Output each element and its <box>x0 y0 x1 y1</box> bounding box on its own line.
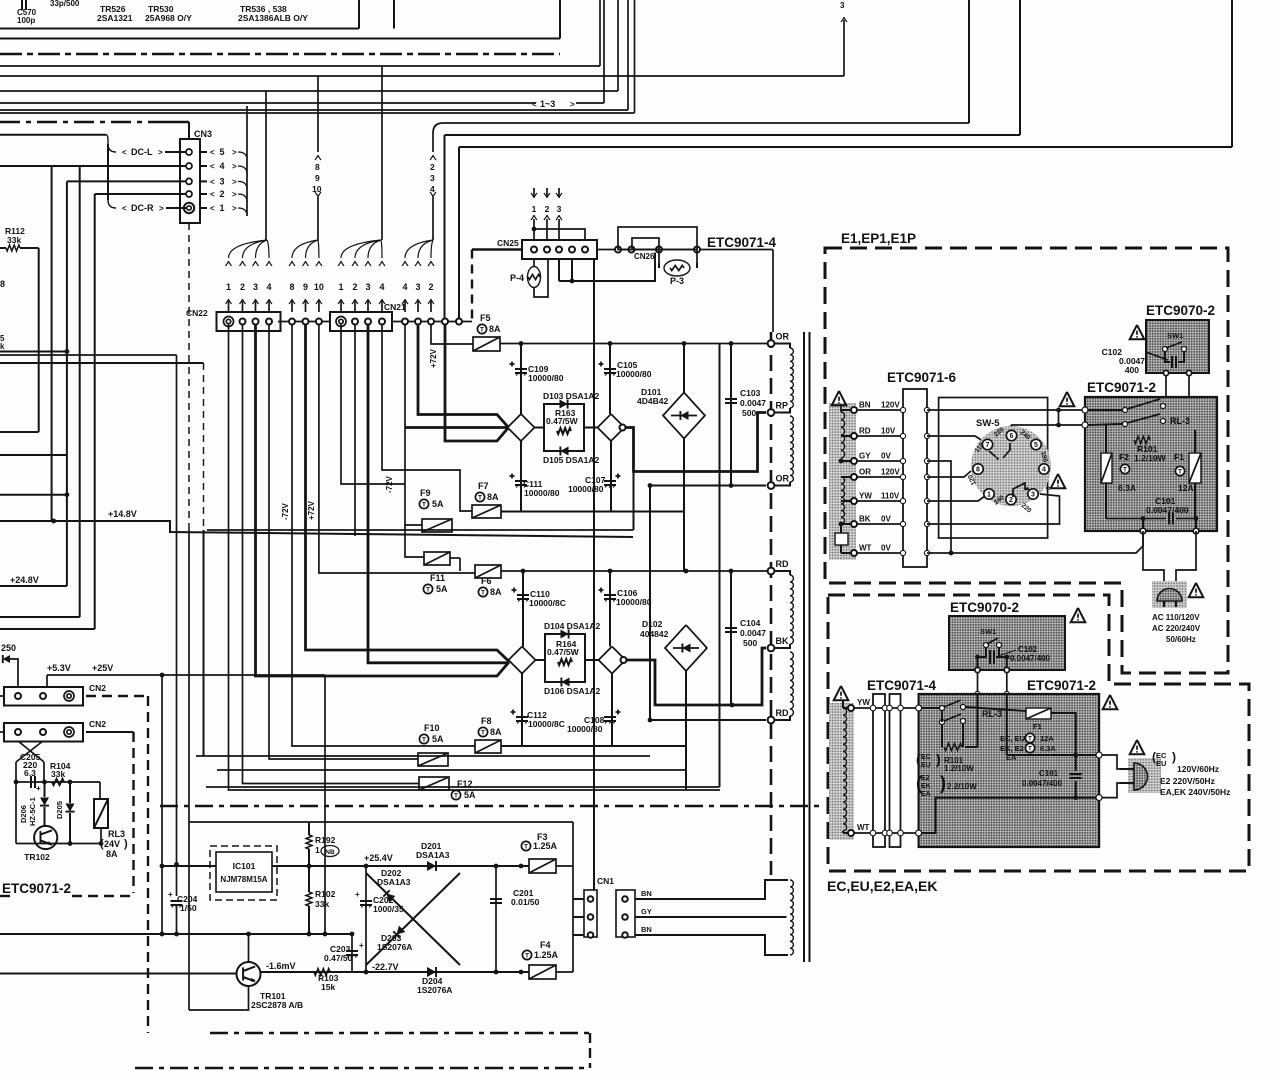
svg-text:1.25A: 1.25A <box>533 841 558 851</box>
svg-text:10000/80: 10000/80 <box>528 373 564 383</box>
svg-text:8: 8 <box>289 282 294 292</box>
svg-text:120V/60Hz: 120V/60Hz <box>1177 764 1219 774</box>
svg-text:1S2076A: 1S2076A <box>417 985 452 995</box>
svg-text:CN21: CN21 <box>384 302 406 312</box>
svg-text:>: > <box>232 177 237 186</box>
svg-text:5A: 5A <box>432 499 444 509</box>
svg-text:ETC9070-2: ETC9070-2 <box>950 600 1019 615</box>
svg-text:F7: F7 <box>478 481 489 491</box>
svg-text:4D4B42: 4D4B42 <box>637 396 668 406</box>
svg-text:): ) <box>1172 750 1176 764</box>
svg-text:24V: 24V <box>104 839 120 849</box>
svg-text:12A: 12A <box>1040 734 1054 743</box>
svg-text:6.3A: 6.3A <box>1040 744 1056 753</box>
svg-text:2: 2 <box>428 282 433 292</box>
svg-text:>: > <box>232 190 237 199</box>
svg-text:WT: WT <box>859 544 872 553</box>
svg-text:9: 9 <box>315 173 320 183</box>
svg-text:2SA1386ALB O/Y: 2SA1386ALB O/Y <box>238 13 308 23</box>
svg-text:33k: 33k <box>315 899 329 909</box>
svg-text:EC,EU,E2,EA,EK: EC,EU,E2,EA,EK <box>827 878 937 894</box>
svg-text:YW: YW <box>857 698 870 707</box>
svg-text:4: 4 <box>402 282 407 292</box>
svg-text:E2 220V/50Hz: E2 220V/50Hz <box>1160 776 1215 786</box>
svg-text:<: < <box>122 148 127 157</box>
svg-text:T: T <box>1028 746 1032 753</box>
svg-text:4: 4 <box>219 161 224 171</box>
svg-text:NB: NB <box>325 849 335 856</box>
svg-text:T: T <box>1123 467 1127 474</box>
svg-text:15k: 15k <box>321 982 335 992</box>
svg-text:F1: F1 <box>1174 452 1184 462</box>
svg-text:DSA1A3: DSA1A3 <box>416 850 450 860</box>
svg-text:E1,EP1,E1P: E1,EP1,E1P <box>841 231 916 246</box>
svg-text:DC-R: DC-R <box>131 203 154 213</box>
svg-text:EA: EA <box>921 791 931 798</box>
svg-text:>: > <box>232 162 237 171</box>
svg-text:2SA1321: 2SA1321 <box>97 13 133 23</box>
svg-text:D106 DSA1A2: D106 DSA1A2 <box>544 686 600 696</box>
svg-text:D102: D102 <box>642 619 663 629</box>
svg-text:GY: GY <box>859 452 871 461</box>
svg-text:8A: 8A <box>490 587 502 597</box>
svg-text:WT: WT <box>857 823 870 832</box>
svg-text:0.0047/400: 0.0047/400 <box>1022 779 1063 788</box>
svg-text:BN: BN <box>641 889 652 898</box>
svg-text:8A: 8A <box>490 727 502 737</box>
svg-text:2: 2 <box>430 162 435 172</box>
svg-text:0V: 0V <box>881 452 891 461</box>
svg-text:BK: BK <box>859 515 871 524</box>
svg-text:10000/80: 10000/80 <box>567 724 603 734</box>
svg-text:0V: 0V <box>881 515 891 524</box>
svg-text:F5: F5 <box>480 313 491 323</box>
svg-text:+25V: +25V <box>92 663 113 673</box>
svg-text:RD: RD <box>859 427 871 436</box>
svg-text:SW-5: SW-5 <box>976 418 1000 429</box>
svg-text:404842: 404842 <box>640 629 669 639</box>
svg-text:+: + <box>36 784 41 793</box>
svg-text:<: < <box>210 162 215 171</box>
svg-text:ETC9071-4: ETC9071-4 <box>867 678 937 693</box>
svg-text:TR102: TR102 <box>24 852 50 862</box>
svg-text:T: T <box>422 737 426 744</box>
svg-text:-72V: -72V <box>385 475 394 493</box>
svg-text:1: 1 <box>315 845 320 855</box>
svg-text:8A: 8A <box>487 492 499 502</box>
svg-text:OR: OR <box>859 468 871 477</box>
svg-text:0.0047: 0.0047 <box>740 398 766 408</box>
svg-text:CN2: CN2 <box>89 719 106 729</box>
svg-text:T: T <box>524 844 528 851</box>
svg-text:P-3: P-3 <box>670 276 684 286</box>
svg-text:8: 8 <box>315 162 320 172</box>
svg-text:C101: C101 <box>1039 769 1059 778</box>
svg-text:DC-L: DC-L <box>131 147 153 157</box>
svg-text:<: < <box>532 100 537 109</box>
svg-text:HZ-5C-1: HZ-5C-1 <box>28 797 37 826</box>
svg-text:1: 1 <box>532 204 537 214</box>
svg-text:OR: OR <box>776 474 790 484</box>
svg-text:BK: BK <box>776 636 789 646</box>
svg-text:EU: EU <box>921 762 931 769</box>
svg-text:R102: R102 <box>315 889 336 899</box>
svg-text:8A: 8A <box>489 324 501 334</box>
svg-text:2: 2 <box>1009 497 1013 504</box>
svg-text:F6: F6 <box>481 576 492 586</box>
svg-text:<: < <box>210 190 215 199</box>
svg-text:T: T <box>481 590 485 597</box>
svg-text:33p/500: 33p/500 <box>50 0 80 8</box>
svg-text:RL3: RL3 <box>108 829 125 839</box>
svg-text:8: 8 <box>0 279 5 289</box>
svg-text:1/50: 1/50 <box>180 903 197 913</box>
svg-text:RL-3: RL-3 <box>982 709 1002 719</box>
svg-text:10000/80: 10000/80 <box>568 484 604 494</box>
svg-text:D105 DSA1A2: D105 DSA1A2 <box>543 455 599 465</box>
svg-text:C103: C103 <box>740 388 761 398</box>
svg-text:+25.4V: +25.4V <box>364 853 393 863</box>
svg-text:500: 500 <box>743 638 757 648</box>
svg-text:C102: C102 <box>1018 645 1038 654</box>
svg-text:10: 10 <box>314 282 324 292</box>
svg-text:NJM78M15A: NJM78M15A <box>220 875 267 884</box>
svg-text:EC, EU: EC, EU <box>1000 734 1025 743</box>
svg-text:D205: D205 <box>55 801 64 819</box>
svg-text:0.0047/400: 0.0047/400 <box>1146 505 1189 515</box>
svg-text:25A968 O/Y: 25A968 O/Y <box>145 13 192 23</box>
svg-text:F8: F8 <box>481 716 492 726</box>
svg-text:T: T <box>426 587 430 594</box>
svg-text:>: > <box>158 148 163 157</box>
svg-text:3: 3 <box>415 282 420 292</box>
svg-text:1: 1 <box>338 282 343 292</box>
svg-text:IC101: IC101 <box>233 861 256 871</box>
svg-text:>: > <box>570 100 575 109</box>
svg-text:10000/8C: 10000/8C <box>528 719 565 729</box>
svg-text:>: > <box>232 204 237 213</box>
svg-text:4: 4 <box>379 282 384 292</box>
svg-text:<: < <box>210 148 215 157</box>
svg-text:2SC2878 A/B: 2SC2878 A/B <box>251 1000 303 1010</box>
svg-text:EC: EC <box>921 754 931 761</box>
svg-text:2: 2 <box>545 204 550 214</box>
svg-text:ETC9071-4: ETC9071-4 <box>707 235 777 250</box>
svg-text:EA,EK 240V/50Hz: EA,EK 240V/50Hz <box>1160 787 1230 797</box>
svg-text:<: < <box>210 177 215 186</box>
svg-text:<: < <box>210 204 215 213</box>
svg-text:): ) <box>940 773 946 793</box>
svg-text:YW: YW <box>859 492 872 501</box>
svg-text:500: 500 <box>742 408 756 418</box>
svg-text:100p: 100p <box>17 16 35 25</box>
svg-text:1: 1 <box>219 203 224 213</box>
svg-text:P-4: P-4 <box>510 273 524 283</box>
svg-text:T: T <box>478 495 482 502</box>
svg-text:3: 3 <box>253 282 258 292</box>
svg-text:EK, E2: EK, E2 <box>1000 744 1024 753</box>
svg-text:): ) <box>124 838 128 850</box>
svg-text:SW1: SW1 <box>980 627 996 636</box>
svg-text:5: 5 <box>1034 442 1038 449</box>
svg-text:2: 2 <box>240 282 245 292</box>
svg-text:<: < <box>122 204 127 213</box>
svg-text:10000/80: 10000/80 <box>524 488 560 498</box>
svg-text:-1.6mV: -1.6mV <box>266 961 296 971</box>
svg-text:C104: C104 <box>740 618 761 628</box>
svg-text:D206: D206 <box>19 805 28 823</box>
svg-text:CN25: CN25 <box>497 238 519 248</box>
svg-text:10000/80: 10000/80 <box>616 597 652 607</box>
svg-text:CN22: CN22 <box>186 308 208 318</box>
svg-text:F10: F10 <box>424 723 440 733</box>
svg-text:33k: 33k <box>51 769 65 779</box>
svg-text:5A: 5A <box>464 790 476 800</box>
svg-text:RD: RD <box>776 708 789 718</box>
svg-text:250: 250 <box>1 643 16 653</box>
svg-text:0.0047/400: 0.0047/400 <box>1010 654 1051 663</box>
svg-text:CN26: CN26 <box>634 252 655 261</box>
svg-text:0V: 0V <box>881 544 891 553</box>
svg-text:F12: F12 <box>457 779 473 789</box>
svg-text:AC 110/120V: AC 110/120V <box>1152 613 1200 622</box>
svg-text:ETC9071-2: ETC9071-2 <box>2 881 71 896</box>
svg-text:+24.8V: +24.8V <box>10 575 39 585</box>
svg-text:6.3A: 6.3A <box>1118 483 1136 493</box>
svg-text:D103 DSA1A2: D103 DSA1A2 <box>543 391 599 401</box>
svg-text:110V: 110V <box>881 492 900 501</box>
svg-text:F4: F4 <box>540 940 551 950</box>
svg-text:3: 3 <box>1031 492 1035 499</box>
svg-text:ETC9071-2: ETC9071-2 <box>1087 380 1156 395</box>
svg-text:1.2/10W: 1.2/10W <box>1134 453 1167 463</box>
svg-text:T: T <box>525 953 529 960</box>
svg-text:CN1: CN1 <box>597 876 614 886</box>
svg-text:EU: EU <box>1156 759 1166 768</box>
svg-text:2: 2 <box>219 189 224 199</box>
svg-text:6: 6 <box>1010 433 1014 440</box>
svg-text:0.01/50: 0.01/50 <box>511 897 540 907</box>
svg-text:8: 8 <box>976 467 980 474</box>
svg-text:5A: 5A <box>432 734 444 744</box>
svg-text:+14.8V: +14.8V <box>108 509 137 519</box>
svg-text:4: 4 <box>1042 467 1046 474</box>
svg-text:5: 5 <box>219 147 224 157</box>
svg-text:CN3: CN3 <box>194 129 212 139</box>
svg-text:10000/8C: 10000/8C <box>529 598 566 608</box>
svg-text:+: + <box>355 890 360 899</box>
svg-text:2: 2 <box>352 282 357 292</box>
svg-text:+5.3V: +5.3V <box>47 663 71 673</box>
svg-text:1.2/10W: 1.2/10W <box>944 764 974 773</box>
svg-text:SW1: SW1 <box>1167 331 1183 340</box>
svg-text:7: 7 <box>986 442 990 449</box>
svg-text:CN2: CN2 <box>89 683 106 693</box>
svg-text:ETC9070-2: ETC9070-2 <box>1146 303 1215 318</box>
svg-text:OR: OR <box>776 332 790 342</box>
svg-text:T: T <box>422 502 426 509</box>
svg-text:ETC9071-6: ETC9071-6 <box>887 370 957 385</box>
svg-text:3: 3 <box>219 176 224 186</box>
svg-text:E2: E2 <box>921 775 930 782</box>
svg-text:0.47/5W: 0.47/5W <box>546 416 579 426</box>
svg-text:T: T <box>1178 469 1182 476</box>
svg-text:>: > <box>232 148 237 157</box>
svg-text:1.25A: 1.25A <box>534 950 559 960</box>
svg-text:RP: RP <box>776 401 789 411</box>
svg-text:+: + <box>359 941 364 950</box>
svg-text:ETC9071-2: ETC9071-2 <box>1027 678 1096 693</box>
svg-text:T: T <box>480 327 484 334</box>
svg-text:+: + <box>168 890 173 899</box>
svg-text:8A: 8A <box>106 849 118 859</box>
svg-text:10000/80: 10000/80 <box>616 369 652 379</box>
svg-text:F9: F9 <box>420 488 431 498</box>
svg-text:BN: BN <box>859 401 871 410</box>
svg-text:120V: 120V <box>881 401 900 410</box>
svg-text:120V: 120V <box>881 468 900 477</box>
svg-text:T: T <box>1028 736 1032 743</box>
svg-text:T: T <box>481 730 485 737</box>
svg-text:4: 4 <box>266 282 271 292</box>
svg-text:DSA1A3: DSA1A3 <box>377 877 411 887</box>
svg-text:1: 1 <box>987 492 991 499</box>
svg-text:F2: F2 <box>1119 452 1129 462</box>
svg-text:3: 3 <box>365 282 370 292</box>
svg-text:5A: 5A <box>436 584 448 594</box>
svg-text:EK: EK <box>921 783 931 790</box>
svg-text:F11: F11 <box>430 573 445 583</box>
svg-text:BN: BN <box>641 925 652 934</box>
svg-text:9: 9 <box>303 282 308 292</box>
svg-text:0.47/5W: 0.47/5W <box>547 647 580 657</box>
svg-text:50/60Hz: 50/60Hz <box>1166 635 1196 644</box>
svg-text:1~3: 1~3 <box>540 99 555 109</box>
svg-text:400: 400 <box>1125 365 1139 375</box>
svg-text:T: T <box>454 793 458 800</box>
svg-text:GY: GY <box>641 907 652 916</box>
svg-text:0.0047: 0.0047 <box>740 628 766 638</box>
svg-text:3: 3 <box>557 204 562 214</box>
svg-text:-72V: -72V <box>281 502 290 520</box>
svg-text:+72V: +72V <box>429 348 438 368</box>
svg-text:3: 3 <box>840 1 845 10</box>
svg-text:2.2/10W: 2.2/10W <box>947 782 977 791</box>
svg-text:F1: F1 <box>1033 722 1042 731</box>
svg-text:): ) <box>936 751 941 767</box>
svg-text:R192: R192 <box>315 835 336 845</box>
svg-text:1: 1 <box>226 282 231 292</box>
svg-text:k: k <box>0 342 5 351</box>
svg-text:D104 DSA1A2: D104 DSA1A2 <box>544 621 600 631</box>
svg-text:+72V: +72V <box>307 500 316 520</box>
svg-text:1S2076A: 1S2076A <box>377 942 412 952</box>
svg-text:>: > <box>159 204 164 213</box>
svg-text:RD: RD <box>776 559 789 569</box>
svg-text:10V: 10V <box>881 427 896 436</box>
svg-text:RL-3: RL-3 <box>1170 416 1190 426</box>
svg-text:AC 220/240V: AC 220/240V <box>1152 624 1201 633</box>
svg-text:-22.7V: -22.7V <box>372 962 399 972</box>
svg-text:3: 3 <box>430 173 435 183</box>
svg-text:12A: 12A <box>1178 483 1194 493</box>
